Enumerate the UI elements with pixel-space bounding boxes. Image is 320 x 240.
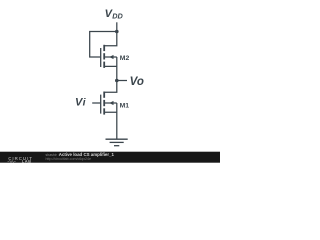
svg-text:M1: M1: [120, 103, 130, 110]
svg-text:M2: M2: [120, 55, 130, 62]
svg-text:Vo: Vo: [130, 76, 144, 88]
svg-text:LAB: LAB: [22, 159, 32, 164]
svg-text:http://circuitlab.com/c6qx24e: http://circuitlab.com/c6qx24e: [46, 157, 92, 161]
svg-text:DD: DD: [112, 12, 123, 21]
